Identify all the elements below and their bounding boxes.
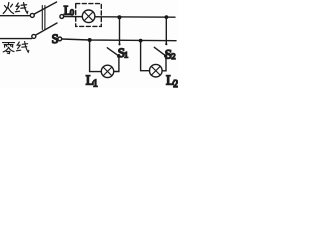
switch S: neutral-pole blade (open)	[36, 23, 57, 35]
wire: live rail from switch to right edge	[64, 16, 175, 19]
node: junction on neutral rail, branch 2	[139, 39, 143, 43]
wire: lamp L1 left to neutral rail	[90, 40, 102, 72]
svg-text:1: 1	[124, 50, 128, 60]
switch S: live-pole blade (open)	[34, 2, 57, 14]
node: junction on live rail, branch 2	[165, 15, 169, 19]
dashed box around lamp L0	[76, 4, 102, 27]
lamp L1	[101, 65, 113, 77]
switch S2 pivot	[164, 54, 167, 57]
switch S1 pivot	[117, 55, 120, 58]
switch S1 blade (open)	[107, 48, 118, 56]
label 火线 (live wire)	[3, 3, 28, 14]
wire: neutral lead from left edge	[0, 38, 32, 40]
wire: S2 pivot down to lamp L2	[162, 56, 166, 71]
switch S2 blade (open)	[154, 47, 165, 55]
switch S: live-pole fixed terminal	[60, 15, 64, 19]
label 零线 (neutral wire)	[3, 42, 29, 54]
lamp L2	[150, 64, 163, 77]
wire: neutral rail from switch to right edge	[62, 39, 176, 41]
wire: branch 2 drop from live rail (crosses neutral rail)	[165, 17, 167, 44]
svg-text:2: 2	[171, 51, 175, 61]
switch S: live-pole pivot terminal	[30, 13, 34, 17]
wire: S1 pivot down to lamp L1	[114, 56, 119, 71]
switch S: neutral-pole fixed terminal	[58, 37, 62, 41]
svg-text:0: 0	[70, 7, 74, 17]
switch S: neutral-pole pivot terminal	[32, 34, 36, 38]
switch S2 upper contact	[165, 43, 167, 45]
node: junction on neutral rail, branch 1	[88, 38, 92, 42]
wire: lamp L2 left to neutral rail	[141, 41, 150, 71]
wire: live lead from left edge	[0, 15, 30, 17]
svg-text:1: 1	[93, 78, 98, 88]
switch S: insulating link bar	[42, 6, 45, 30]
switch S1 upper contact	[118, 43, 120, 45]
svg-text:2: 2	[173, 79, 178, 88]
wire: branch 1 drop from live rail (crosses neutral rail)	[119, 17, 121, 44]
lamp L0	[82, 10, 95, 23]
node: junction on live rail, branch 1	[117, 15, 121, 19]
